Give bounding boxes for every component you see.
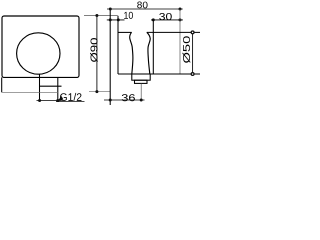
wall line segment B: [89, 91, 110, 93]
dia50 bottom ring: [191, 73, 194, 76]
nut: [132, 74, 150, 80]
connection box bottom edge: [40, 85, 62, 87]
right extension line: [179, 9, 181, 74]
connection box right vertical: [57, 77, 59, 100]
wall line (side view): [109, 9, 111, 105]
dia90 dim line: [96, 16, 98, 92]
connection box left vertical: [39, 74, 41, 100]
dia50 dim line: [192, 32, 194, 74]
svg-text:Ø50: Ø50: [182, 35, 193, 64]
body top edge left part: [118, 31, 132, 33]
10 dim line: [107, 19, 125, 21]
36 extension: [140, 83, 142, 100]
escutcheon square plate (front view): [2, 16, 79, 77]
body top edge right part: [147, 31, 200, 33]
svg-text:36: 36: [121, 93, 136, 104]
sub step: [135, 80, 148, 83]
G1/2 dim line: [37, 100, 62, 102]
G1/2 leader arrow: [58, 96, 64, 101]
wall line segment A: [2, 91, 58, 93]
svg-text:G1/2: G1/2: [59, 92, 82, 104]
shoulder line: [117, 16, 119, 74]
dia90 top extension: [84, 15, 118, 17]
body bottom edge: [118, 73, 200, 75]
wall contour left: [1, 77, 3, 92]
holder circle (front view): [17, 33, 60, 74]
30 dim line: [151, 19, 183, 21]
svg-text:Ø90: Ø90: [89, 37, 100, 63]
dia50 top ring: [191, 31, 194, 34]
36 dim line: [104, 99, 145, 101]
body right side / 30 extension: [152, 20, 154, 74]
80 dim line: [107, 8, 183, 10]
svg-text:10: 10: [123, 11, 133, 22]
grip outline left: [130, 32, 133, 74]
grip outline right: [147, 32, 150, 74]
svg-text:80: 80: [137, 0, 148, 11]
G1/2 underline: [56, 101, 85, 103]
svg-text:30: 30: [159, 12, 173, 23]
